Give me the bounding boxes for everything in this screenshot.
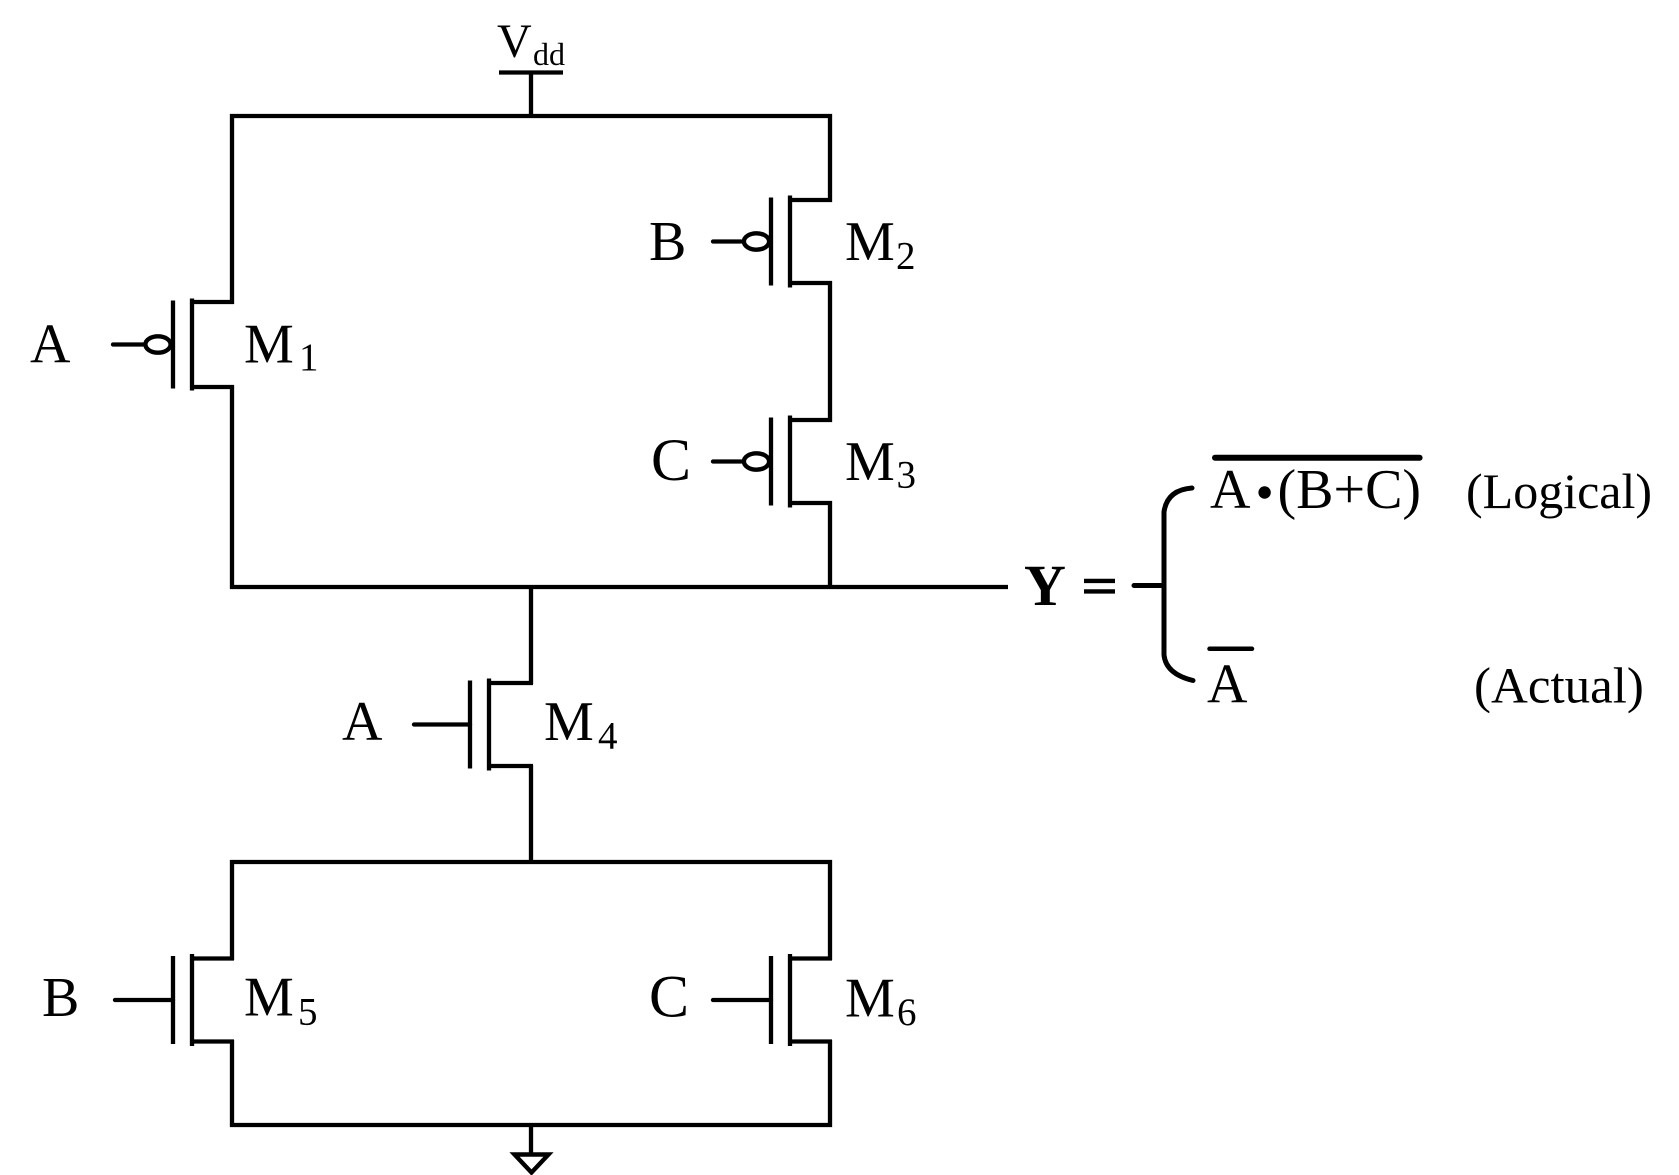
M6 gate bar bbox=[769, 956, 773, 1044]
wire: right rail between M2 drain and M3 source bbox=[828, 281, 832, 422]
wire: M3 gate lead bbox=[713, 459, 741, 463]
wire: output node stem down to M4 drain bbox=[529, 587, 533, 684]
M4 channel bar bbox=[487, 679, 491, 771]
svg-text:M: M bbox=[244, 967, 294, 1029]
svg-text:(Logical): (Logical) bbox=[1466, 463, 1652, 519]
svg-text:C: C bbox=[651, 427, 691, 493]
transistor M5 (NMOS, gate B, left pull-down) bbox=[115, 954, 234, 1046]
wire: M4 source down to NMOS top rail bbox=[529, 765, 533, 864]
brace bracket bbox=[1164, 488, 1193, 681]
wire: NMOS section bottom rail joining M5 and M6 sources bbox=[232, 1040, 830, 1125]
M5 channel bar bbox=[190, 954, 194, 1046]
transistor M6 (NMOS, gate C, right pull-down) bbox=[713, 954, 832, 1046]
svg-text:M: M bbox=[845, 431, 895, 493]
svg-text:6: 6 bbox=[897, 991, 917, 1034]
transistor M4 (NMOS, gate A, series pull-down) bbox=[414, 679, 533, 771]
wire: M6 drain stub bbox=[790, 956, 832, 960]
M2 channel bar bbox=[788, 196, 792, 288]
svg-text:M: M bbox=[544, 691, 594, 753]
svg-text:dd: dd bbox=[533, 36, 565, 72]
wire: ground stem bbox=[529, 1125, 533, 1154]
transistor M2 (PMOS, gate B, upper right pull-up) bbox=[713, 196, 832, 288]
wire: M1 gate lead bbox=[113, 342, 143, 346]
svg-text:A: A bbox=[1210, 459, 1251, 521]
wire: M5 gate lead bbox=[115, 998, 173, 1002]
svg-text:M: M bbox=[845, 968, 895, 1030]
wire: left rail from M1 drain down and output rail to node Y bbox=[232, 385, 1008, 587]
svg-text:B: B bbox=[42, 967, 79, 1029]
svg-text:3: 3 bbox=[897, 454, 917, 497]
overbar of A.(B+C) bbox=[1215, 455, 1420, 461]
M3 gate bar bbox=[769, 418, 773, 506]
svg-text:Y: Y bbox=[1024, 553, 1066, 618]
wire: M4 source stub bbox=[489, 764, 533, 768]
brace dash bbox=[1134, 583, 1161, 588]
wire: M2 drain stub bbox=[790, 281, 832, 285]
M1 inversion bubble bbox=[145, 336, 170, 352]
svg-text:A: A bbox=[30, 314, 71, 376]
svg-text:C: C bbox=[649, 964, 689, 1030]
wire: NMOS section top rail with corners down to M5 and M6 drains bbox=[232, 862, 830, 960]
wire: M4 drain stub bbox=[489, 681, 533, 685]
svg-text:(B+C): (B+C) bbox=[1278, 459, 1422, 521]
svg-text:M: M bbox=[244, 314, 294, 376]
svg-text:2: 2 bbox=[896, 235, 916, 278]
M2 inversion bubble bbox=[744, 233, 769, 249]
svg-text:V: V bbox=[497, 15, 532, 68]
M5 gate bar bbox=[171, 956, 175, 1044]
M3 channel bar bbox=[788, 416, 792, 508]
svg-text:B: B bbox=[649, 211, 686, 273]
M4 gate bar bbox=[468, 681, 472, 769]
svg-text:5: 5 bbox=[298, 991, 318, 1034]
transistor M1 (PMOS, gate A, left pull-up) bbox=[113, 299, 234, 391]
M2 gate bar bbox=[769, 198, 773, 286]
svg-text:(Actual): (Actual) bbox=[1474, 659, 1644, 715]
M1 gate bar bbox=[171, 301, 175, 389]
svg-text:4: 4 bbox=[598, 715, 618, 758]
equals sign bbox=[1084, 579, 1115, 583]
svg-text:1: 1 bbox=[299, 336, 319, 379]
ground bbox=[515, 1155, 549, 1173]
wire: M1 source stub bbox=[192, 300, 234, 304]
wire: M1 drain stub bbox=[192, 385, 234, 389]
wire: M6 gate lead bbox=[713, 998, 771, 1002]
M6 channel bar bbox=[788, 954, 792, 1046]
wire: M6 source stub bbox=[790, 1039, 832, 1043]
wire: right rail from M3 drain to output rail junction bbox=[828, 501, 832, 589]
M1 channel bar bbox=[190, 299, 194, 391]
wire: M4 gate lead bbox=[414, 722, 470, 726]
wire: M3 drain stub bbox=[790, 501, 832, 505]
wire: top supply rail (left rail top, top rail, right rail down to M2 source) bbox=[232, 116, 830, 304]
wire: M5 drain stub bbox=[192, 956, 234, 960]
svg-text:M: M bbox=[845, 211, 895, 273]
wire: M5 source stub bbox=[192, 1039, 234, 1043]
svg-text:A: A bbox=[342, 691, 383, 753]
power symbol Vdd bar bbox=[499, 70, 563, 74]
svg-text:A: A bbox=[1207, 654, 1248, 716]
transistor M3 (PMOS, gate C, lower right pull-up) bbox=[713, 416, 832, 508]
M3 inversion bubble bbox=[744, 453, 769, 469]
wire: Vdd stem to top rail bbox=[529, 73, 533, 119]
wire: M2 gate lead bbox=[713, 239, 741, 243]
wire: M3 source stub bbox=[790, 418, 832, 422]
overbar of A bbox=[1210, 647, 1253, 652]
wire: M2 source stub bbox=[790, 198, 832, 202]
